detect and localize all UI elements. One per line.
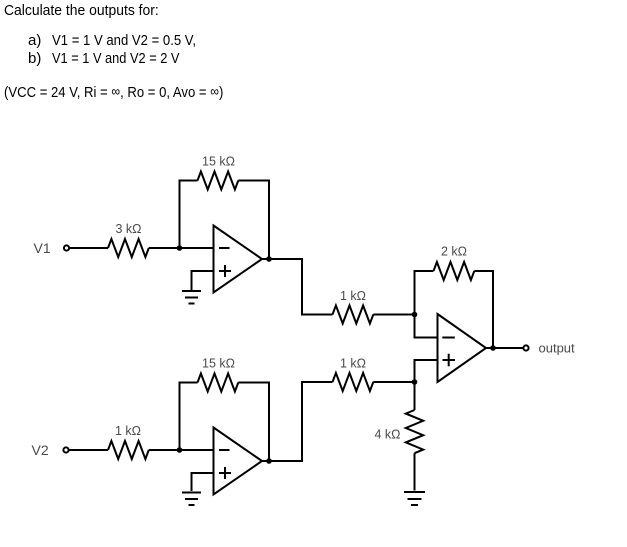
op-amp U1 bbox=[214, 226, 263, 293]
wire U2 plus input to ground bbox=[192, 473, 214, 491]
wire node A up to R7 bbox=[415, 271, 434, 315]
wire feedback U3 right-down bbox=[474, 271, 493, 348]
wire U1 output to R5 bbox=[262, 259, 333, 315]
resistor R4 15k feedback U2 bbox=[198, 374, 239, 392]
svg-text:output: output bbox=[539, 341, 576, 356]
terminal V1 bbox=[64, 245, 69, 250]
svg-text:3 kΩ: 3 kΩ bbox=[115, 222, 141, 236]
svg-text:V1: V1 bbox=[34, 240, 51, 256]
wire U2 output to R6 bbox=[262, 382, 333, 461]
terminal V2 bbox=[63, 447, 68, 452]
svg-text:V2: V2 bbox=[32, 442, 49, 458]
wire feedback U2 right-down bbox=[238, 383, 269, 462]
ground G2 bbox=[182, 493, 201, 506]
ground G3 bbox=[404, 492, 425, 505]
resistor R8 4k bbox=[406, 410, 423, 453]
wire U1 plus input to ground bbox=[192, 271, 214, 290]
op-amp U3 minus pin mark bbox=[442, 337, 455, 339]
svg-text:15 kΩ: 15 kΩ bbox=[202, 357, 235, 371]
node U2 inverting junction bbox=[177, 447, 183, 453]
node A (U3 inverting net) bbox=[412, 312, 418, 318]
op-amp U1 minus pin mark bbox=[219, 247, 230, 249]
svg-text:4 kΩ: 4 kΩ bbox=[374, 428, 400, 442]
ground G1 bbox=[182, 291, 201, 304]
resistor R3 1k bbox=[108, 441, 149, 459]
node B (U3 non-inverting net) bbox=[412, 379, 418, 385]
wire V1 to R1 bbox=[70, 247, 108, 249]
resistor R2 15k feedback U1 bbox=[198, 172, 239, 190]
resistor R7 2k feedback U3 bbox=[434, 262, 475, 280]
wire V2 to R3 bbox=[69, 449, 108, 451]
op-amp U1 plus pin mark bbox=[219, 265, 231, 277]
wire R1 to U1 inverting input bbox=[149, 247, 214, 249]
svg-text:2 kΩ: 2 kΩ bbox=[441, 245, 467, 259]
wire U3 plus input to node B bbox=[415, 360, 438, 382]
svg-text:1 kΩ: 1 kΩ bbox=[340, 357, 366, 371]
wire node A down to U3 inverting input bbox=[415, 315, 438, 338]
item b bbox=[28, 50, 41, 68]
node U1 inverting junction bbox=[177, 245, 183, 251]
wire U3 output to terminal bbox=[486, 347, 523, 349]
wire R3 to U2 inverting input bbox=[149, 449, 214, 451]
terminal output bbox=[523, 345, 528, 350]
resistor R5 1k bbox=[333, 306, 374, 324]
node U3 output bbox=[490, 345, 496, 351]
op-amp U2 plus pin mark bbox=[219, 467, 231, 479]
wire feedback U1 up-left bbox=[180, 181, 198, 249]
resistor R6 1k bbox=[333, 373, 374, 391]
wire node B down to R8 bbox=[414, 382, 416, 410]
wire feedback U2 up-left bbox=[180, 383, 198, 451]
svg-text:15 kΩ: 15 kΩ bbox=[202, 155, 235, 169]
op-amp U3 bbox=[438, 314, 487, 382]
wire feedback U1 right-down bbox=[238, 181, 269, 260]
svg-text:1 kΩ: 1 kΩ bbox=[115, 424, 141, 438]
node U1 output bbox=[266, 256, 272, 262]
title text bbox=[4, 2, 159, 20]
wire R8 to ground bbox=[414, 453, 416, 490]
wire R5 to node A bbox=[373, 314, 414, 316]
node U2 output bbox=[266, 458, 272, 464]
item a bbox=[28, 32, 41, 50]
op-amp U2 minus pin mark bbox=[219, 449, 230, 451]
op-amp U3 plus pin mark bbox=[443, 354, 456, 367]
wire R6 to node B bbox=[373, 381, 414, 383]
conditions line bbox=[4, 83, 223, 102]
op-amp U2 bbox=[214, 428, 263, 495]
resistor R1 3k bbox=[108, 239, 149, 257]
svg-text:1 kΩ: 1 kΩ bbox=[340, 289, 366, 303]
